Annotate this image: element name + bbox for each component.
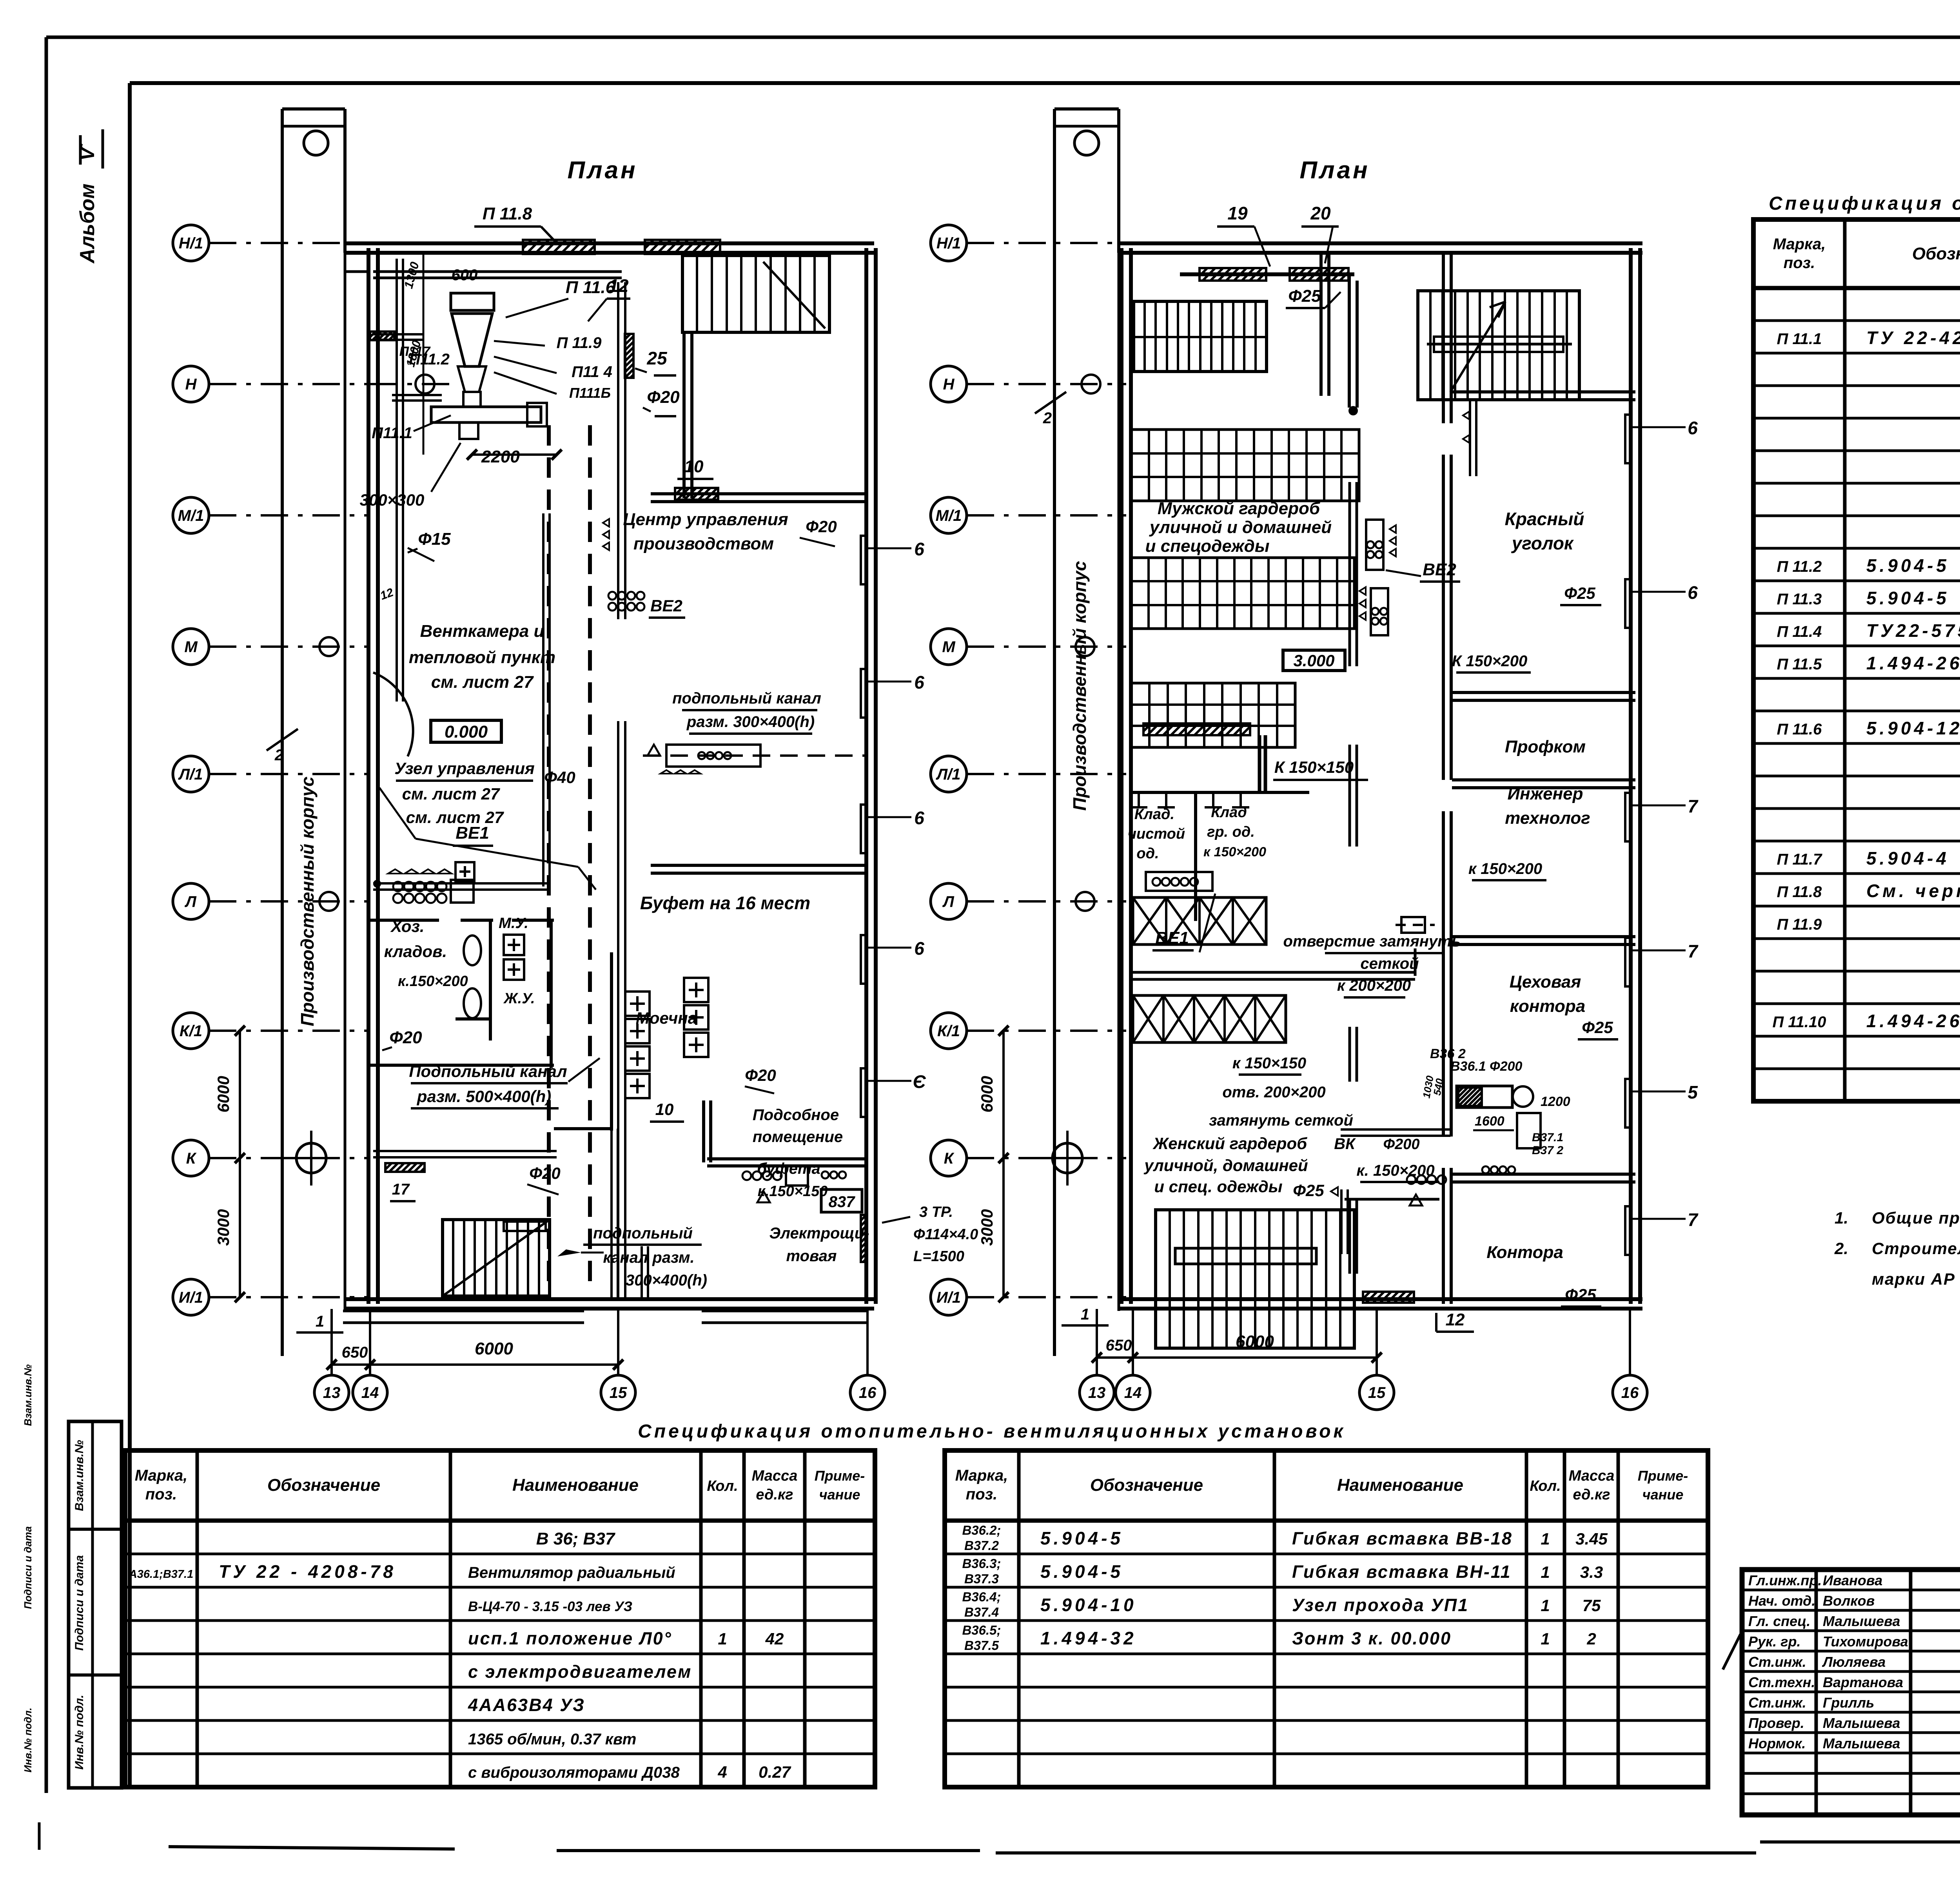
svg-text:с электродвигателем: с электродвигателем: [468, 1662, 692, 1682]
svg-text:см. лист 27: см. лист 27: [402, 785, 500, 803]
svg-text:4: 4: [717, 1763, 727, 1781]
svg-text:6000: 6000: [1236, 1332, 1274, 1351]
svg-text:Спецификация отопительно- вен: Спецификация отопительно- вентиляционных…: [1769, 193, 1960, 214]
svg-text:0.000: 0.000: [445, 722, 488, 741]
svg-text:Общие примечания см. лист 1: Общие примечания см. лист 17: [1872, 1209, 1960, 1227]
svg-text:Альбом: Альбом: [76, 183, 99, 264]
svg-text:Л: Л: [184, 893, 197, 910]
svg-text:П 11.8: П 11.8: [1777, 883, 1822, 901]
svg-text:ТУ 22 - 4208-78: ТУ 22 - 4208-78: [219, 1561, 396, 1582]
svg-text:Производственный корпус: Производственный корпус: [1069, 561, 1090, 810]
svg-text:14: 14: [1124, 1384, 1142, 1401]
svg-text:Инженер: Инженер: [1507, 784, 1583, 803]
svg-text:Цеховая: Цеховая: [1510, 972, 1581, 992]
svg-text:6000: 6000: [475, 1339, 513, 1358]
svg-text:Ф20: Ф20: [745, 1066, 776, 1084]
svg-text:0.27: 0.27: [759, 1763, 791, 1781]
svg-text:П 11.5: П 11.5: [1777, 656, 1822, 673]
svg-text:13: 13: [1088, 1384, 1106, 1401]
svg-text:Взам.инв.№: Взам.инв.№: [73, 1440, 86, 1511]
svg-text:3000: 3000: [214, 1209, 232, 1245]
svg-text:1.: 1.: [1835, 1209, 1848, 1227]
svg-text:П 11.3: П 11.3: [1777, 591, 1822, 608]
svg-text:300×400(h): 300×400(h): [626, 1272, 707, 1289]
svg-text:6: 6: [1688, 582, 1698, 603]
svg-text:Н/1: Н/1: [936, 235, 961, 252]
svg-text:12: 12: [1446, 1310, 1465, 1329]
svg-text:1200: 1200: [1541, 1094, 1570, 1109]
svg-text:1.494-26 вып.1: 1.494-26 вып.1: [1866, 653, 1960, 673]
svg-text:ед.кг: ед.кг: [756, 1486, 793, 1503]
svg-text:к. 150×200: к. 150×200: [1356, 1162, 1434, 1179]
svg-text:В37.2: В37.2: [964, 1538, 999, 1553]
svg-text:ТУ 22-4208-78: ТУ 22-4208-78: [1866, 328, 1960, 348]
svg-text:П 11.10: П 11.10: [1772, 1013, 1826, 1031]
svg-text:Грилль: Грилль: [1823, 1695, 1874, 1711]
svg-text:П11.1: П11.1: [372, 424, 412, 442]
svg-text:Подсобное: Подсобное: [753, 1106, 839, 1124]
svg-text:Люляева: Люляева: [1822, 1654, 1886, 1670]
svg-text:5.904-4: 5.904-4: [1866, 848, 1949, 868]
svg-text:В 36; В37: В 36; В37: [536, 1529, 616, 1548]
svg-text:марки АР: марки АР: [1872, 1270, 1955, 1288]
svg-text:Рук. гр.: Рук. гр.: [1748, 1633, 1801, 1650]
svg-text:Ст.инж.: Ст.инж.: [1748, 1654, 1806, 1670]
svg-text:В37 2: В37 2: [1532, 1144, 1563, 1157]
svg-text:5.904-10: 5.904-10: [1040, 1595, 1137, 1615]
svg-text:Нач. отд.: Нач. отд.: [1748, 1593, 1815, 1609]
svg-text:к 150×150: к 150×150: [1232, 1055, 1306, 1072]
svg-text:6: 6: [914, 938, 924, 959]
svg-text:Гибкая вставка ВВ-18: Гибкая вставка ВВ-18: [1292, 1528, 1513, 1548]
svg-text:1: 1: [1081, 1306, 1089, 1323]
svg-text:Вентилятор радиальный: Вентилятор радиальный: [468, 1564, 675, 1581]
svg-text:2: 2: [1043, 410, 1052, 427]
svg-text:Иванова: Иванова: [1823, 1572, 1882, 1588]
svg-text:П 11.6: П 11.6: [1777, 721, 1822, 738]
svg-text:Венткамера и: Венткамера и: [420, 622, 544, 641]
svg-text:затянуть сеткой: затянуть сеткой: [1209, 1112, 1353, 1129]
svg-text:20: 20: [1310, 203, 1331, 223]
svg-text:В36.5;: В36.5;: [962, 1623, 1001, 1637]
svg-text:6: 6: [914, 672, 924, 692]
svg-text:разм. 300×400(h): разм. 300×400(h): [686, 713, 815, 731]
svg-text:гр. од.: гр. од.: [1207, 824, 1255, 840]
svg-text:П111Б: П111Б: [569, 385, 611, 401]
svg-text:В-Ц4-70 - 3.15 -03 лев УЗ: В-Ц4-70 - 3.15 -03 лев УЗ: [468, 1599, 632, 1614]
svg-text:подпольный канал: подпольный канал: [672, 690, 821, 707]
svg-text:Контора: Контора: [1486, 1243, 1563, 1262]
svg-text:2200: 2200: [481, 447, 520, 466]
svg-text:650: 650: [342, 1344, 368, 1361]
svg-text:Приме-: Приме-: [815, 1468, 865, 1484]
svg-text:Марка,: Марка,: [1773, 236, 1826, 253]
svg-text:Подписи и дата: Подписи и дата: [73, 1555, 86, 1651]
svg-text:3 ТР.: 3 ТР.: [919, 1204, 953, 1220]
svg-text:тепловой пункт: тепловой пункт: [409, 648, 555, 667]
svg-text:650: 650: [1106, 1337, 1132, 1354]
svg-text:16: 16: [859, 1384, 877, 1401]
svg-text:13: 13: [323, 1384, 341, 1401]
svg-text:Ф15: Ф15: [418, 529, 451, 549]
svg-text:подпольный: подпольный: [593, 1225, 693, 1242]
svg-text:Узел управления: Узел управления: [394, 759, 534, 778]
svg-text:ВЕ1: ВЕ1: [456, 823, 489, 843]
svg-text:чистой: чистой: [1128, 826, 1185, 842]
svg-text:4АА63В4 УЗ: 4АА63В4 УЗ: [468, 1695, 585, 1715]
svg-text:5.904-5: 5.904-5: [1866, 588, 1949, 608]
svg-text:1: 1: [1541, 1563, 1550, 1581]
svg-text:Узел прохода УП1: Узел прохода УП1: [1292, 1595, 1469, 1615]
svg-text:15: 15: [1368, 1384, 1386, 1401]
svg-text:1: 1: [718, 1630, 727, 1648]
svg-text:см. лист 27: см. лист 27: [406, 808, 504, 827]
svg-text:к 150×200: к 150×200: [1203, 845, 1266, 859]
svg-text:и спецодежды: и спецодежды: [1145, 537, 1270, 556]
svg-text:технолог: технолог: [1505, 809, 1590, 828]
svg-text:М/1: М/1: [936, 507, 962, 524]
svg-text:И/1: И/1: [936, 1289, 961, 1306]
svg-text:уголок: уголок: [1511, 533, 1574, 553]
svg-text:Гл.инж.пр.: Гл.инж.пр.: [1748, 1572, 1822, 1588]
svg-text:П 11.2: П 11.2: [1777, 558, 1822, 575]
svg-text:1365 об/мин, 0.37 квт: 1365 об/мин, 0.37 квт: [468, 1731, 636, 1748]
svg-text:Н: Н: [943, 376, 955, 393]
svg-text:кладов.: кладов.: [384, 942, 447, 961]
svg-text:П 11.4: П 11.4: [1777, 623, 1822, 640]
svg-text:ТУ22-5757-84: ТУ22-5757-84: [1866, 620, 1960, 641]
svg-text:А36.1;В37.1: А36.1;В37.1: [129, 1568, 193, 1581]
svg-text:К 150×200: К 150×200: [1452, 653, 1528, 670]
svg-text:См. чертежи АР: См. чертежи АР: [1866, 881, 1960, 901]
svg-text:Обозначение: Обозначение: [1090, 1476, 1203, 1495]
svg-text:3.000: 3.000: [1293, 651, 1334, 670]
svg-text:План: План: [1299, 157, 1370, 184]
svg-text:16: 16: [1621, 1384, 1639, 1401]
svg-text:1600: 1600: [1475, 1114, 1504, 1129]
svg-text:Подписи и дата: Подписи и дата: [22, 1526, 34, 1609]
svg-text:П 11.7: П 11.7: [1777, 851, 1823, 868]
svg-text:ВК: ВК: [1334, 1135, 1356, 1153]
svg-text:Ф25: Ф25: [1293, 1181, 1324, 1200]
svg-text:В36.4;: В36.4;: [962, 1590, 1001, 1604]
svg-text:товая: товая: [786, 1247, 837, 1265]
svg-text:Клад: Клад: [1211, 804, 1247, 821]
svg-text:см. лист 27: см. лист 27: [431, 673, 534, 692]
svg-text:Взам.инв.№: Взам.инв.№: [22, 1364, 34, 1426]
svg-text:Провер.: Провер.: [1748, 1715, 1804, 1731]
svg-text:1.494-26 вып.1: 1.494-26 вып.1: [1866, 1011, 1960, 1031]
svg-text:1.494-32: 1.494-32: [1040, 1628, 1137, 1648]
svg-text:17: 17: [392, 1181, 410, 1198]
svg-text:поз.: поз.: [966, 1486, 997, 1503]
svg-text:Марка,: Марка,: [135, 1467, 188, 1484]
svg-text:П 11.6: П 11.6: [566, 278, 615, 297]
svg-text:Обозначение: Обозначение: [1912, 244, 1960, 263]
svg-text:и спец. одежды: и спец. одежды: [1154, 1177, 1282, 1196]
svg-text:1: 1: [1541, 1530, 1550, 1548]
svg-text:Л/1: Л/1: [178, 766, 203, 783]
svg-text:Наименование: Наименование: [1337, 1476, 1463, 1495]
svg-text:Волков: Волков: [1823, 1593, 1875, 1609]
svg-text:К: К: [186, 1150, 197, 1167]
svg-text:производством: производством: [633, 534, 774, 553]
svg-text:300×300: 300×300: [360, 491, 425, 509]
svg-text:Подпольный канал: Подпольный канал: [409, 1062, 567, 1080]
svg-text:с виброизоляторами Д038: с виброизоляторами Д038: [468, 1764, 680, 1781]
svg-text:Инв.№ подл.: Инв.№ подл.: [22, 1708, 34, 1773]
svg-text:7: 7: [1688, 1209, 1699, 1230]
svg-text:В37.5: В37.5: [964, 1638, 999, 1653]
svg-text:Строительную часть венткамер: Строительную часть венткамер см. чертежи: [1872, 1239, 1960, 1258]
svg-text:Ф200: Ф200: [1383, 1136, 1419, 1153]
svg-text:М.У.: М.У.: [499, 915, 528, 932]
svg-text:1: 1: [316, 1313, 324, 1330]
svg-text:2: 2: [1586, 1630, 1596, 1648]
svg-text:5: 5: [1688, 1082, 1698, 1102]
svg-text:М/1: М/1: [178, 507, 204, 524]
svg-text:Н: Н: [185, 376, 197, 393]
svg-text:Ф20: Ф20: [389, 1028, 422, 1047]
svg-text:2: 2: [274, 747, 283, 764]
svg-text:5.904-5: 5.904-5: [1866, 555, 1949, 576]
svg-text:Ст.техн.: Ст.техн.: [1748, 1674, 1815, 1690]
svg-text:Профком: Профком: [1505, 737, 1586, 756]
svg-text:уличной и домашней: уличной и домашней: [1149, 518, 1332, 537]
svg-text:75: 75: [1583, 1596, 1601, 1615]
svg-text:Тихомирова: Тихомирова: [1823, 1633, 1908, 1650]
svg-text:К: К: [944, 1150, 955, 1167]
svg-text:поз.: поз.: [1784, 254, 1815, 272]
svg-text:Малышева: Малышева: [1823, 1735, 1900, 1751]
svg-text:Ф25: Ф25: [1288, 286, 1321, 306]
svg-text:поз.: поз.: [145, 1486, 177, 1503]
svg-text:L=1500: L=1500: [913, 1248, 964, 1265]
svg-text:Ж.У.: Ж.У.: [503, 990, 535, 1007]
svg-text:В36.3;: В36.3;: [962, 1556, 1001, 1571]
svg-text:П11 4: П11 4: [572, 363, 612, 381]
svg-text:М: М: [184, 638, 198, 656]
svg-text:к.150×200: к.150×200: [398, 973, 468, 990]
svg-text:И/1: И/1: [179, 1289, 203, 1306]
svg-text:6: 6: [1688, 418, 1698, 438]
svg-text:Гибкая вставка ВН-11: Гибкая вставка ВН-11: [1292, 1562, 1512, 1582]
svg-text:к 200×200: к 200×200: [1337, 977, 1411, 994]
svg-text:1: 1: [1541, 1630, 1550, 1648]
svg-text:Ф20: Ф20: [647, 388, 680, 407]
svg-text:Л: Л: [942, 893, 955, 910]
svg-text:уличной, домашней: уличной, домашней: [1143, 1156, 1308, 1175]
svg-text:К/1: К/1: [180, 1022, 202, 1040]
svg-text:ед.кг: ед.кг: [1573, 1486, 1610, 1503]
svg-text:Спецификация отопительно- вен: Спецификация отопительно- вентиляционных…: [638, 1421, 1346, 1442]
svg-text:Буфет на 16 мест: Буфет на 16 мест: [640, 893, 810, 913]
svg-text:сеткой: сеткой: [1360, 955, 1419, 972]
svg-text:Центр управления: Центр управления: [623, 510, 788, 529]
svg-text:разм. 500×400(h): разм. 500×400(h): [417, 1087, 552, 1106]
svg-text:ВЕ2: ВЕ2: [1423, 560, 1456, 579]
svg-text:5.904-12 вып.1-35: 5.904-12 вып.1-35: [1866, 718, 1960, 738]
svg-text:10: 10: [655, 1100, 674, 1118]
svg-text:Обозначение: Обозначение: [267, 1476, 380, 1495]
svg-text:3.3: 3.3: [1580, 1563, 1603, 1581]
svg-text:Ф114×4.0: Ф114×4.0: [913, 1226, 978, 1243]
svg-text:Зонт 3 к. 00.000: Зонт 3 к. 00.000: [1292, 1628, 1452, 1648]
svg-text:М: М: [942, 638, 956, 656]
svg-text:Марка,: Марка,: [955, 1467, 1008, 1484]
svg-text:19: 19: [1227, 203, 1248, 223]
svg-text:Ст.инж.: Ст.инж.: [1748, 1695, 1806, 1711]
svg-text:исп.1 положение Л0°: исп.1 положение Л0°: [468, 1628, 672, 1648]
svg-text:К 150×150: К 150×150: [1274, 758, 1354, 776]
svg-text:В36.1 Ф200: В36.1 Ф200: [1450, 1059, 1523, 1074]
svg-text:Нормок.: Нормок.: [1748, 1735, 1806, 1751]
svg-text:3.45: 3.45: [1575, 1530, 1608, 1548]
svg-text:од.: од.: [1136, 845, 1159, 862]
svg-text:14: 14: [361, 1384, 379, 1401]
svg-text:Малышева: Малышева: [1823, 1613, 1900, 1629]
svg-text:Л/1: Л/1: [936, 766, 961, 783]
svg-text:Женский гардероб: Женский гардероб: [1152, 1134, 1307, 1153]
svg-text:837: 837: [829, 1193, 855, 1211]
svg-text:В37.1: В37.1: [1532, 1131, 1563, 1144]
svg-text:6: 6: [914, 539, 924, 559]
svg-text:Ф25: Ф25: [1565, 1285, 1596, 1304]
svg-text:Ф20: Ф20: [806, 517, 837, 536]
svg-text:Кол.: Кол.: [1530, 1478, 1561, 1494]
svg-text:П 11.9: П 11.9: [557, 334, 602, 352]
svg-text:Электрощи-: Электрощи-: [769, 1225, 869, 1242]
svg-text:Малышева: Малышева: [1823, 1715, 1900, 1731]
svg-text:П 11.8: П 11.8: [483, 204, 532, 223]
svg-text:Наименование: Наименование: [512, 1476, 639, 1495]
svg-text:7: 7: [1688, 941, 1699, 961]
svg-text:В37.3: В37.3: [964, 1572, 999, 1586]
svg-text:В37.4: В37.4: [964, 1605, 999, 1619]
svg-text:Красный: Красный: [1505, 509, 1584, 529]
svg-text:буфета: буфета: [757, 1160, 820, 1177]
svg-text:отв. 200×200: отв. 200×200: [1222, 1084, 1325, 1101]
svg-text:Инв.№ подл.: Инв.№ подл.: [73, 1695, 86, 1769]
svg-text:6000: 6000: [978, 1076, 996, 1112]
svg-text:600: 600: [452, 266, 478, 284]
svg-text:6: 6: [914, 808, 924, 828]
svg-text:Є: Є: [913, 1071, 926, 1092]
svg-text:помещение: помещение: [753, 1128, 843, 1146]
svg-text:Хоз.: Хоз.: [390, 917, 424, 935]
svg-text:Приме-: Приме-: [1638, 1468, 1688, 1484]
svg-text:Ф25: Ф25: [1564, 584, 1595, 602]
svg-text:контора: контора: [1510, 997, 1586, 1016]
svg-text:Ф25: Ф25: [1582, 1018, 1613, 1037]
svg-text:к 150×200: к 150×200: [1468, 860, 1542, 877]
svg-text:П 11.1: П 11.1: [1777, 330, 1822, 348]
svg-text:Производственный корпус: Производственный корпус: [297, 776, 318, 1026]
svg-text:чание: чание: [1642, 1486, 1684, 1503]
svg-text:Масса: Масса: [752, 1468, 798, 1484]
svg-text:15: 15: [610, 1384, 627, 1401]
svg-text:42: 42: [765, 1630, 784, 1648]
svg-text:П 11.9: П 11.9: [1777, 916, 1822, 933]
svg-text:чание: чание: [819, 1486, 860, 1503]
svg-text:Н/1: Н/1: [179, 235, 203, 252]
svg-text:10: 10: [684, 457, 704, 476]
svg-text:5.904-5: 5.904-5: [1040, 1528, 1123, 1548]
svg-text:Клад.: Клад.: [1134, 806, 1174, 823]
svg-text:Масса: Масса: [1569, 1468, 1615, 1484]
svg-text:25: 25: [646, 348, 668, 368]
svg-text:В36.2;: В36.2;: [962, 1523, 1001, 1537]
svg-text:отверстие затянуть: отверстие затянуть: [1283, 933, 1461, 950]
svg-text:ВЕ2: ВЕ2: [650, 596, 682, 615]
svg-text:План: План: [567, 157, 637, 184]
svg-text:6000: 6000: [214, 1076, 232, 1112]
svg-text:Кол.: Кол.: [707, 1478, 738, 1494]
svg-text:1: 1: [1541, 1596, 1550, 1615]
svg-text:Мужской гардероб: Мужской гардероб: [1158, 499, 1321, 518]
svg-text:3000: 3000: [978, 1209, 996, 1245]
svg-text:Гл. спец.: Гл. спец.: [1748, 1613, 1810, 1629]
svg-text:5.904-5: 5.904-5: [1040, 1561, 1123, 1582]
svg-text:7: 7: [1688, 796, 1699, 816]
svg-text:Вартанова: Вартанова: [1823, 1674, 1903, 1690]
svg-text:Ф20: Ф20: [529, 1164, 561, 1182]
svg-text:2.: 2.: [1834, 1239, 1848, 1258]
svg-text:К/1: К/1: [937, 1022, 960, 1040]
